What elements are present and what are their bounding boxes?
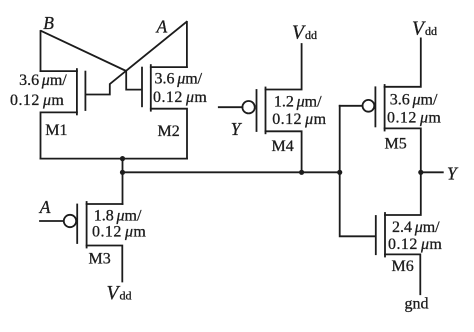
svg-text:1.2 μm/: 1.2 μm/ xyxy=(274,94,322,111)
label M3 xyxy=(89,251,111,268)
transistor M4 (PMOS) xyxy=(242,44,301,172)
value label M1 W/L xyxy=(10,72,67,109)
wire A lead to M3 bubble xyxy=(40,220,64,222)
svg-text:dd: dd xyxy=(425,24,437,38)
svg-text:M4: M4 xyxy=(272,138,294,155)
ground gnd label xyxy=(405,296,429,313)
svg-text:3.6 μm/: 3.6 μm/ xyxy=(19,72,67,89)
junction dot Y xyxy=(418,170,423,175)
wire A to M2 drain xyxy=(186,22,188,67)
svg-text:0.12 μm: 0.12 μm xyxy=(387,110,441,127)
transistor M5 (PMOS) xyxy=(340,38,421,172)
svg-text:0.12 μm: 0.12 μm xyxy=(272,111,326,128)
svg-text:A: A xyxy=(156,17,168,37)
svg-text:V: V xyxy=(412,19,426,40)
node A label (top) xyxy=(156,17,168,37)
svg-text:A: A xyxy=(39,197,51,217)
label M2 xyxy=(158,123,180,140)
label M6 xyxy=(392,258,414,275)
power Vdd label (M4) xyxy=(292,23,317,44)
value label M5 W/L xyxy=(387,92,441,127)
node Y label (output) xyxy=(447,164,459,184)
junction dot rail xyxy=(120,156,125,161)
svg-text:Y: Y xyxy=(231,119,243,139)
svg-text:3.6 μm/: 3.6 μm/ xyxy=(155,71,203,88)
node Y label (M4 gate) xyxy=(231,119,243,139)
wire rail down to M3 xyxy=(122,159,124,204)
svg-text:M1: M1 xyxy=(45,122,67,139)
power Vdd label (M3) xyxy=(107,283,132,304)
transistor M2 xyxy=(142,65,187,159)
svg-text:1.8 μm/: 1.8 μm/ xyxy=(94,208,142,225)
wire A diagonal to M1 gate xyxy=(86,22,186,95)
power Vdd label (M5) xyxy=(412,19,437,40)
svg-text:0.12 μm: 0.12 μm xyxy=(153,89,207,106)
svg-text:B: B xyxy=(43,13,54,33)
svg-text:M6: M6 xyxy=(392,258,414,275)
node A label (M3 gate) xyxy=(39,197,51,217)
svg-text:gnd: gnd xyxy=(405,296,429,313)
svg-text:0.12 μm: 0.12 μm xyxy=(92,224,146,241)
svg-text:2.4 μm/: 2.4 μm/ xyxy=(392,219,440,236)
wire Y lead to M4 bubble xyxy=(219,106,243,108)
label M5 xyxy=(385,136,407,153)
transistor M3 (PMOS) xyxy=(64,202,123,282)
svg-text:M5: M5 xyxy=(385,136,407,153)
label M1 xyxy=(45,122,67,139)
wire source rail M1-M2 xyxy=(41,158,188,160)
junction dot mid xyxy=(120,170,125,175)
svg-text:0.12 μm: 0.12 μm xyxy=(388,236,442,253)
wire long horizontal to M4/M6 xyxy=(123,171,340,173)
label M4 xyxy=(272,138,294,155)
transistor M1 xyxy=(41,69,86,159)
wire B to M1 drain xyxy=(40,31,42,71)
junction dot at M4 drain xyxy=(299,170,304,175)
value label M3 W/L xyxy=(92,208,146,241)
svg-text:M3: M3 xyxy=(89,251,111,268)
value label M2 W/L xyxy=(153,71,207,107)
svg-text:M2: M2 xyxy=(158,123,180,140)
svg-text:Y: Y xyxy=(447,164,459,184)
wire output Y node xyxy=(421,171,443,173)
transistor M6 (NMOS) xyxy=(376,172,421,294)
svg-text:V: V xyxy=(107,283,121,304)
svg-text:dd: dd xyxy=(120,289,132,303)
value label M4 W/L xyxy=(272,94,326,129)
value label M6 W/L xyxy=(388,219,442,253)
node B label xyxy=(43,13,54,33)
svg-text:dd: dd xyxy=(305,28,317,42)
svg-text:V: V xyxy=(292,23,306,44)
svg-text:0.12 μm: 0.12 μm xyxy=(10,92,64,109)
wire B diagonal to M2 gate xyxy=(41,31,141,90)
junction dot at M5/M6 gate column xyxy=(337,170,342,175)
svg-text:3.6 μm/: 3.6 μm/ xyxy=(390,92,438,109)
wire M5 gate column down to M6 gate xyxy=(340,106,375,237)
